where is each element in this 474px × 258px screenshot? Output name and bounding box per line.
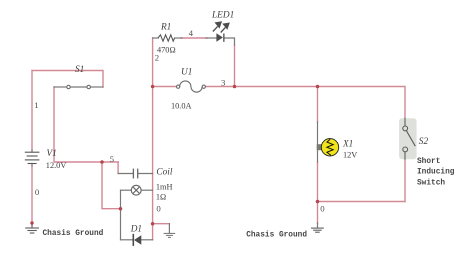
svg-text:0: 0 bbox=[320, 203, 325, 213]
svg-text:5: 5 bbox=[110, 154, 115, 164]
svg-text:1: 1 bbox=[34, 100, 38, 110]
svg-text:2: 2 bbox=[155, 53, 159, 63]
svg-text:Switch: Switch bbox=[417, 179, 445, 187]
svg-text:D1: D1 bbox=[130, 224, 142, 234]
svg-text:S1: S1 bbox=[75, 65, 84, 75]
svg-text:Chasis Ground: Chasis Ground bbox=[43, 230, 104, 238]
svg-text:12.0V: 12.0V bbox=[46, 161, 67, 170]
svg-text:470Ω: 470Ω bbox=[157, 46, 176, 55]
svg-text:X1: X1 bbox=[342, 139, 353, 149]
svg-text:3: 3 bbox=[221, 77, 226, 87]
svg-text:1Ω: 1Ω bbox=[156, 192, 166, 201]
svg-text:Chasis Ground: Chasis Ground bbox=[246, 231, 307, 239]
svg-text:4: 4 bbox=[189, 28, 194, 38]
svg-text:0: 0 bbox=[35, 187, 40, 197]
svg-text:R1: R1 bbox=[160, 23, 171, 33]
svg-text:1mH: 1mH bbox=[156, 183, 173, 192]
svg-text:10.0A: 10.0A bbox=[171, 101, 192, 110]
svg-text:0: 0 bbox=[156, 204, 161, 214]
svg-text:U1: U1 bbox=[181, 68, 192, 78]
svg-text:Coil: Coil bbox=[156, 168, 172, 178]
svg-text:V1: V1 bbox=[47, 149, 57, 159]
svg-text:S2: S2 bbox=[419, 137, 429, 147]
svg-text:Short: Short bbox=[417, 158, 440, 166]
svg-text:Inducing: Inducing bbox=[417, 169, 455, 177]
svg-text:LED1: LED1 bbox=[211, 11, 234, 21]
svg-text:12V: 12V bbox=[343, 151, 357, 160]
